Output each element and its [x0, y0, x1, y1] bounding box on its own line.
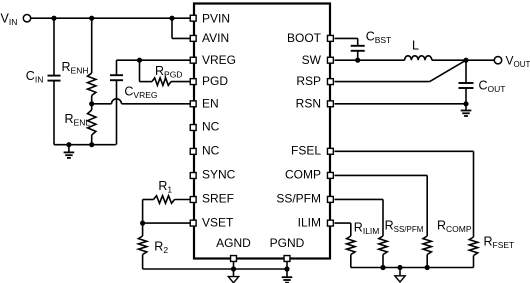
pin VSET	[190, 220, 196, 226]
capacitor CVREG	[110, 75, 123, 80]
ground	[64, 152, 75, 158]
wire COUT upper lead	[465, 60, 467, 83]
wire RCOMP vertical drop	[426, 175, 428, 236]
wire AVIN branch horizontal	[172, 37, 192, 39]
wire ground stem left	[68, 145, 70, 153]
resistor RPGD	[152, 78, 171, 86]
svg-text:L: L	[412, 38, 419, 52]
wire CBST lower lead	[357, 51, 359, 60]
pin VREG	[190, 57, 196, 63]
pin SS/PFM	[327, 196, 333, 202]
node RSN-COUT junction	[463, 101, 468, 106]
svg-text:PGND: PGND	[270, 236, 305, 250]
wire R1 left lead	[143, 199, 154, 201]
resistor R1	[154, 196, 175, 204]
svg-text:NC: NC	[202, 120, 220, 134]
node EN divider junction	[89, 101, 94, 106]
ground right rail	[395, 276, 405, 282]
wire left ground rail	[54, 144, 116, 146]
pin SYNC	[190, 173, 196, 179]
node PGND rail junction	[284, 266, 289, 271]
pin PVIN	[190, 15, 196, 21]
resistor RSS/PFM	[379, 236, 387, 255]
wire RFSET vertical drop	[473, 151, 475, 237]
wire CVREG lower lead	[116, 80, 118, 145]
ground PGND	[282, 277, 293, 283]
pin SW	[327, 57, 333, 63]
node VIN-RENH junction	[89, 16, 94, 21]
IC U1 body	[194, 4, 330, 259]
svg-text:VREG: VREG	[202, 53, 236, 67]
wire FSEL horizontal	[335, 150, 474, 152]
capacitor CBST	[351, 46, 365, 51]
wire AGND stem	[233, 259, 235, 277]
wire RPGD vertical drop	[139, 60, 141, 81]
pin BOOT	[327, 35, 333, 41]
node VOUT junction	[463, 58, 468, 63]
svg-text:AGND: AGND	[216, 236, 251, 250]
svg-text:RSP: RSP	[296, 74, 321, 88]
svg-text:SW: SW	[302, 53, 322, 67]
wire RPGD left lead	[140, 81, 153, 83]
node VREG-RPGD junction	[137, 58, 142, 63]
node CBST-SW junction	[355, 58, 360, 63]
svg-text:PGD: PGD	[202, 74, 228, 88]
node RENL-rail junction	[89, 142, 94, 147]
wire VREG horizontal	[117, 59, 192, 61]
svg-text:SYNC: SYNC	[202, 168, 236, 182]
wire inductor to VOUT	[432, 59, 495, 61]
wire RFSET lower lead	[473, 256, 475, 268]
wire right ground stem	[399, 268, 401, 276]
wire RENL lower lead	[91, 135, 93, 145]
wire RSN horizontal	[335, 103, 467, 105]
svg-text:BOOT: BOOT	[287, 31, 322, 45]
resistor RENH	[88, 73, 96, 96]
terminal VIN	[23, 15, 30, 22]
resistor RILIM	[347, 236, 355, 255]
pin FSEL	[327, 148, 333, 154]
inductor L	[405, 56, 432, 60]
wire RCOMP lower lead	[426, 255, 428, 268]
resistor RFSET	[469, 237, 477, 256]
terminal VOUT	[494, 57, 501, 64]
pin ILIM	[327, 220, 333, 226]
wire COMP horizontal	[335, 174, 428, 176]
ground AGND	[228, 277, 238, 283]
wire EN hop over CVREG	[112, 99, 122, 104]
pin AVIN	[190, 35, 196, 41]
svg-text:SREF: SREF	[202, 192, 234, 206]
wire COUT lower lead	[465, 88, 467, 104]
wire RENH lower lead	[91, 96, 93, 104]
svg-text:RSN: RSN	[296, 96, 321, 110]
wire RENH upper lead	[91, 18, 93, 73]
wire RPGD to PGD pin	[171, 81, 192, 83]
node VIN-AVIN junction	[169, 16, 174, 21]
wire CIN branch lower	[53, 81, 55, 145]
wire R1 to VSET vertical	[142, 200, 144, 224]
wire VIN to PVIN	[31, 17, 192, 19]
wire RILIM lower lead	[350, 255, 352, 268]
pin EN	[190, 101, 196, 107]
wire AVIN branch vertical	[171, 18, 173, 38]
wire bottom ground rail	[143, 268, 287, 270]
pin RSN	[327, 101, 333, 107]
wire R2 lower lead	[142, 255, 144, 270]
svg-text:NC: NC	[202, 144, 220, 158]
wire VSET horizontal	[143, 222, 192, 224]
pin RSP	[327, 79, 333, 85]
pin NC	[190, 148, 196, 154]
resistor RCOMP	[423, 236, 431, 255]
svg-text:EN: EN	[202, 96, 219, 110]
svg-text:ILIM: ILIM	[298, 215, 321, 229]
node AGND rail junction	[231, 266, 236, 271]
node VSET-R2 junction	[140, 221, 145, 226]
svg-text:VSET: VSET	[202, 215, 234, 229]
wire COUT ground stem	[465, 104, 467, 111]
resistor R2	[138, 236, 146, 255]
wire CBST upper lead	[357, 38, 359, 45]
wire EN right segment	[122, 103, 192, 105]
wire PGND stem	[286, 259, 288, 277]
pin SREF	[190, 197, 196, 203]
svg-text:PVIN: PVIN	[202, 11, 230, 25]
pin COMP	[327, 172, 333, 178]
wire ILIM horizontal	[335, 222, 351, 224]
node RSS/PFM rail junction	[380, 265, 385, 270]
pin PGD	[190, 79, 196, 85]
wire R2 upper lead	[142, 223, 144, 236]
node left rail ground junction	[66, 142, 71, 147]
wire RSP horizontal	[335, 81, 430, 83]
svg-text:COMP: COMP	[285, 168, 321, 182]
node VIN-CIN junction	[51, 16, 56, 21]
wire right ground rail	[351, 267, 474, 269]
ground COUT	[461, 111, 472, 117]
svg-text:SS/PFM: SS/PFM	[276, 192, 321, 206]
wire RENL upper lead	[91, 104, 93, 110]
wire CIN branch upper	[53, 18, 55, 75]
wire RSP diagonal to VOUT node	[430, 60, 466, 81]
node right rail ground junction	[397, 265, 402, 270]
resistor RENL	[88, 110, 96, 135]
pin AGND	[231, 256, 237, 262]
wire R1 to SREF pin	[175, 199, 192, 201]
capacitor COUT	[459, 83, 474, 88]
wire RILIM vertical drop	[350, 223, 352, 236]
wire SW to inductor	[335, 59, 405, 61]
wire RSS/PFM lower lead	[382, 255, 384, 268]
capacitor CIN	[48, 76, 61, 81]
wire BOOT horizontal	[335, 37, 358, 39]
wire EN left segment	[92, 103, 112, 105]
pin PGND	[284, 256, 290, 262]
node RCOMP rail junction	[425, 265, 430, 270]
pin NC	[190, 125, 196, 131]
wire CVREG upper lead	[116, 60, 118, 75]
svg-text:FSEL: FSEL	[291, 144, 321, 158]
wire RSS/PFM vertical drop	[382, 199, 384, 236]
wire SS/PFM horizontal	[335, 198, 384, 200]
svg-text:AVIN: AVIN	[202, 31, 229, 45]
